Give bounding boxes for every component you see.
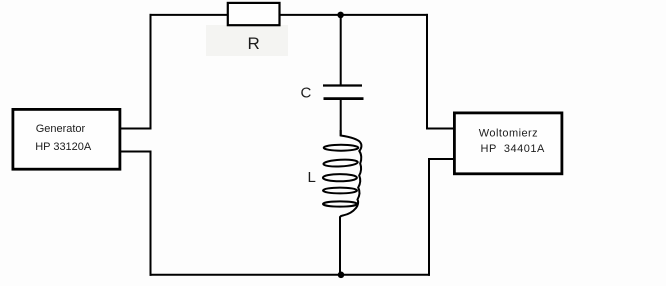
wire: top horizontal left segment (node A to resistor) (150, 14, 229, 16)
capacitor C bottom plate (324, 97, 364, 100)
wire: left upper vertical (generator + terminal riser) (150, 14, 152, 130)
wire: generator lower stub (121, 151, 152, 153)
svg-text:C: C (301, 85, 312, 102)
svg-text:HP 33120A: HP 33120A (35, 141, 92, 153)
faint scan shading behind R label (206, 25, 288, 56)
voltmeter box (454, 113, 562, 174)
wire: voltmeter upper stub (426, 128, 454, 130)
svg-text:Woltomierz: Woltomierz (479, 128, 538, 140)
svg-text:Generator: Generator (36, 123, 86, 135)
wire: right lower vertical (voltmeter - drop) (428, 158, 430, 276)
wire: top horizontal right segment (resistor to right corner) (280, 14, 428, 16)
wire: right upper vertical (to voltmeter + terminal) (426, 14, 428, 130)
generator box (13, 109, 120, 169)
junction dot node A (top) (337, 12, 344, 19)
resistor R body (228, 3, 280, 25)
wire: middle branch vertical, inductor to node B (339, 217, 341, 276)
wire: middle branch vertical, capacitor to inductor (340, 100, 342, 137)
wire: voltmeter lower stub (428, 158, 454, 160)
svg-text:L: L (308, 169, 316, 186)
wire: middle branch vertical, node A to capacitor (340, 14, 342, 85)
capacitor C top plate (323, 84, 362, 86)
svg-text:HP 34401A: HP 34401A (481, 143, 545, 155)
junction dot node B (bottom) (338, 272, 345, 279)
wire: bottom horizontal (150, 274, 431, 276)
svg-text:R: R (248, 34, 260, 53)
wire: left lower vertical (generator - terminal drop) (150, 151, 152, 276)
wire: generator upper stub (121, 128, 152, 130)
inductor L coil (323, 130, 362, 218)
